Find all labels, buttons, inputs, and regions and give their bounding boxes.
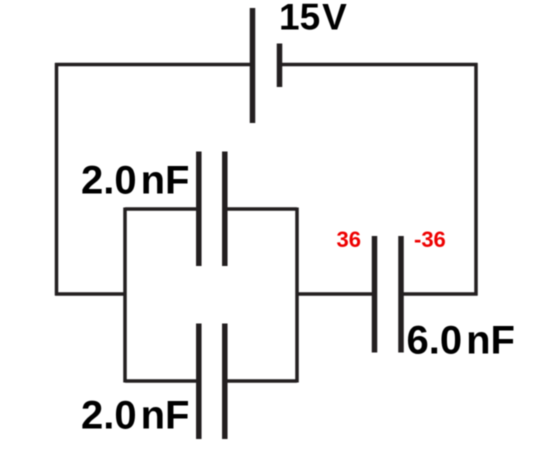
wire box top-left segment [125, 207, 196, 211]
capacitor C2 2.0 nF (bottom of box) [199, 324, 225, 440]
wire box top-right segment [227, 207, 297, 211]
wire C3 to right side [404, 292, 478, 296]
wire box bottom-left segment [125, 379, 196, 383]
wire top-right: battery to top-right corner [282, 63, 478, 67]
wire box bottom-right segment [227, 379, 297, 383]
svg-text:36: 36 [337, 227, 361, 252]
svg-text:15V: 15V [279, 0, 347, 38]
wire bottom-left: left side to inner box [55, 292, 127, 296]
svg-text:2.0nF: 2.0nF [81, 394, 189, 438]
wire left side [55, 63, 59, 296]
wire box right side [295, 208, 299, 383]
wire top-left: battery to top-left corner [55, 63, 250, 67]
capacitor C1 2.0 nF (top of box) [199, 152, 225, 267]
wire middle: box right side to C3 [297, 292, 372, 296]
battery V1 [253, 8, 280, 123]
svg-text:-36: -36 [414, 227, 446, 252]
wire right side [474, 63, 478, 296]
wire box left side [123, 208, 127, 383]
svg-text:6.0nF: 6.0nF [407, 319, 515, 363]
capacitor C3 6.0 nF [375, 236, 402, 353]
svg-text:2.0nF: 2.0nF [81, 159, 189, 203]
